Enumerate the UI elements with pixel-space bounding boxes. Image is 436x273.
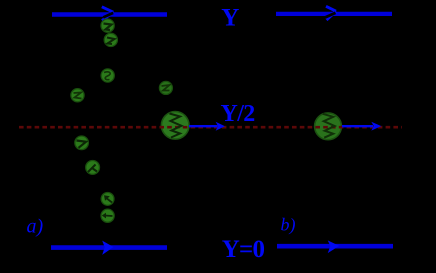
zigzag inside sphere M1: [170, 114, 182, 138]
svg-text:Y/2: Y/2: [221, 101, 255, 127]
molecule P6: [75, 136, 89, 150]
top plate (b), moving, speed Y: [276, 12, 392, 16]
zigzag inside sphere M2: [323, 114, 335, 138]
svg-text:Y=0: Y=0: [222, 236, 265, 263]
molecule P4: [71, 89, 84, 102]
molecule P2: [104, 33, 117, 46]
mid-arrow on top plate (a): [102, 7, 114, 21]
molecule P7: [86, 161, 100, 175]
mid-arrowhead on bottom plate (b): [328, 240, 340, 253]
bottom plate (a), stationary: [51, 245, 167, 250]
molecule P9: [101, 209, 114, 222]
molecule sphere M2 (carrier on centerline, right): [315, 113, 342, 140]
molecule P3: [101, 69, 114, 82]
bottom plate (b), stationary: [277, 244, 393, 249]
molecule P5: [159, 81, 172, 94]
mid-arrow on top plate (b): [326, 6, 337, 20]
centerline Y/2 (dashed): [19, 126, 402, 129]
momentum arrow from sphere M2: [342, 122, 381, 131]
momentum arrow from sphere M1: [189, 122, 225, 131]
molecule P8: [101, 193, 114, 206]
top plate (a), moving, speed Y: [52, 12, 167, 16]
molecule sphere M1 (carrier on centerline, left): [161, 112, 189, 140]
mid-arrowhead on bottom plate (a): [102, 241, 113, 255]
svg-text:Y: Y: [221, 4, 239, 31]
svg-text:a): a): [27, 216, 44, 238]
molecule P1: [101, 19, 114, 32]
svg-text:b): b): [281, 215, 296, 236]
